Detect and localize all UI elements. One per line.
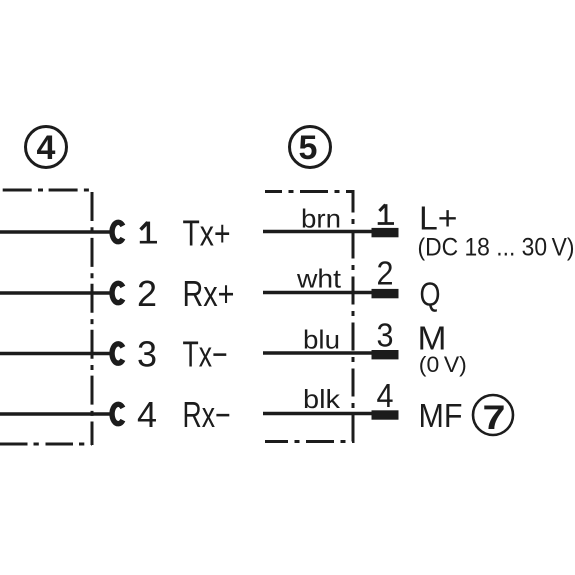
left connector box outline: top edge (dash-dot) [3, 189, 92, 192]
wire right row1 (brn) [263, 230, 374, 233]
right device box outline: top, right and bottom edges (dash-dot) [265, 192, 353, 442]
svg-text:Tx−: Tx− [183, 334, 228, 375]
svg-text:MF: MF [419, 397, 463, 434]
wire left row2 [0, 291, 112, 295]
svg-text:5: 5 [299, 129, 318, 167]
svg-text:Tx+: Tx+ [183, 213, 231, 254]
terminal bar 1 [372, 228, 399, 237]
svg-text:2: 2 [137, 273, 157, 314]
left connector box outline: bottom edge (dash-dot) [0, 443, 92, 446]
terminal number 1 [378, 204, 394, 223]
terminal bar 4 [372, 410, 399, 419]
svg-text:4: 4 [377, 377, 394, 414]
svg-text:Q: Q [420, 276, 441, 313]
svg-text:blk: blk [303, 384, 341, 414]
svg-text:M: M [418, 320, 447, 357]
wire left row1 [0, 230, 112, 234]
svg-text:wht: wht [296, 264, 342, 294]
svg-text:brn: brn [301, 204, 341, 234]
socket contact pin3 [112, 344, 123, 363]
wire right row4 (blk) [263, 412, 374, 415]
svg-text:3: 3 [137, 334, 157, 375]
svg-text:3: 3 [377, 317, 394, 354]
wire left row4 [0, 412, 112, 416]
svg-text:(0 V): (0 V) [419, 352, 467, 377]
wire right row3 (blu) [263, 351, 374, 354]
socket contact pin1 [112, 222, 123, 241]
svg-text:4: 4 [37, 129, 56, 167]
terminal bar 2 [372, 289, 399, 298]
svg-text:Rx+: Rx+ [183, 273, 235, 314]
node 7 (circled reference number) [473, 395, 513, 437]
svg-text:L+: L+ [419, 200, 458, 237]
pin number 1 [140, 222, 157, 243]
svg-text:Rx−: Rx− [183, 394, 231, 435]
wire right row2 (wht) [263, 291, 374, 294]
wire left row3 [0, 352, 112, 356]
svg-text:7: 7 [483, 399, 506, 437]
node 4 (circled reference number) [26, 127, 67, 168]
left connector box outline: right edge (dash-dot) [91, 192, 94, 445]
svg-text:4: 4 [137, 394, 157, 435]
svg-text:(DC 18 ... 30 V): (DC 18 ... 30 V) [418, 234, 575, 262]
node 5 (circled reference number) [290, 127, 331, 168]
socket contact pin2 [112, 283, 123, 302]
terminal bar 3 [372, 350, 399, 359]
svg-text:2: 2 [377, 255, 394, 292]
svg-text:blu: blu [303, 325, 340, 355]
socket contact pin4 [112, 404, 123, 423]
